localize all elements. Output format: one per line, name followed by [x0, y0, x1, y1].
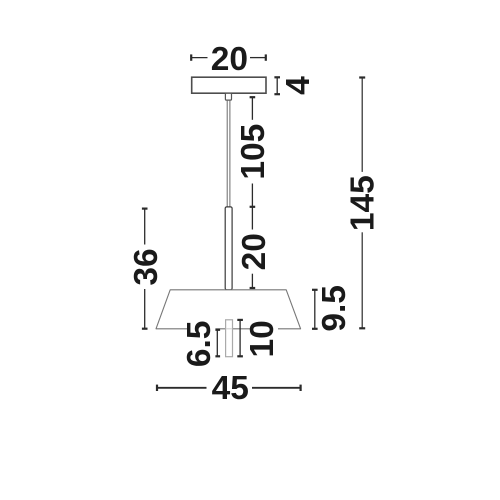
svg-text:36: 36: [128, 248, 165, 285]
svg-text:10: 10: [244, 320, 281, 357]
svg-text:105: 105: [235, 124, 272, 180]
canopy (ceiling plate): [192, 77, 266, 93]
dimension 105 text: [235, 121, 272, 183]
dimension 105 (cable length): [250, 97, 256, 207]
dimension 36 text: [128, 245, 165, 289]
dimension 10 (lower rod length): [237, 320, 243, 356]
svg-text:20: 20: [236, 233, 273, 270]
svg-text:45: 45: [212, 370, 249, 407]
dimension 20 rod text: [236, 230, 273, 274]
svg-text:4: 4: [280, 76, 317, 95]
canopy stem connector: [225, 93, 231, 100]
dimension 10 text: [244, 319, 281, 359]
dimension 4 (canopy height): [274, 77, 280, 94]
shade bottom line seen through lower rod: [226, 328, 232, 330]
dimension 20 (rod length): [250, 207, 256, 288]
svg-text:6.5: 6.5: [181, 321, 218, 368]
dimension 45 (shade width): [157, 385, 301, 391]
dimension 36 (left, rod+shade height): [142, 209, 148, 329]
lamp shade: [156, 290, 301, 329]
dimension 6.5 (rod below shade): [215, 330, 221, 357]
svg-text:9.5: 9.5: [316, 285, 353, 332]
dimension 145 text: [345, 175, 382, 231]
dimension 9.5 (shade height): [312, 290, 318, 329]
dimension 20 (top, canopy width): [191, 54, 266, 60]
lower rod (hidden part, grey): [226, 320, 233, 357]
dimension 145 (overall height): [359, 78, 365, 329]
suspension cable: [227, 100, 230, 207]
dimension 6.5 text: [181, 317, 218, 371]
svg-text:20: 20: [211, 41, 248, 78]
upper rod: [225, 207, 232, 290]
svg-text:145: 145: [345, 175, 382, 231]
